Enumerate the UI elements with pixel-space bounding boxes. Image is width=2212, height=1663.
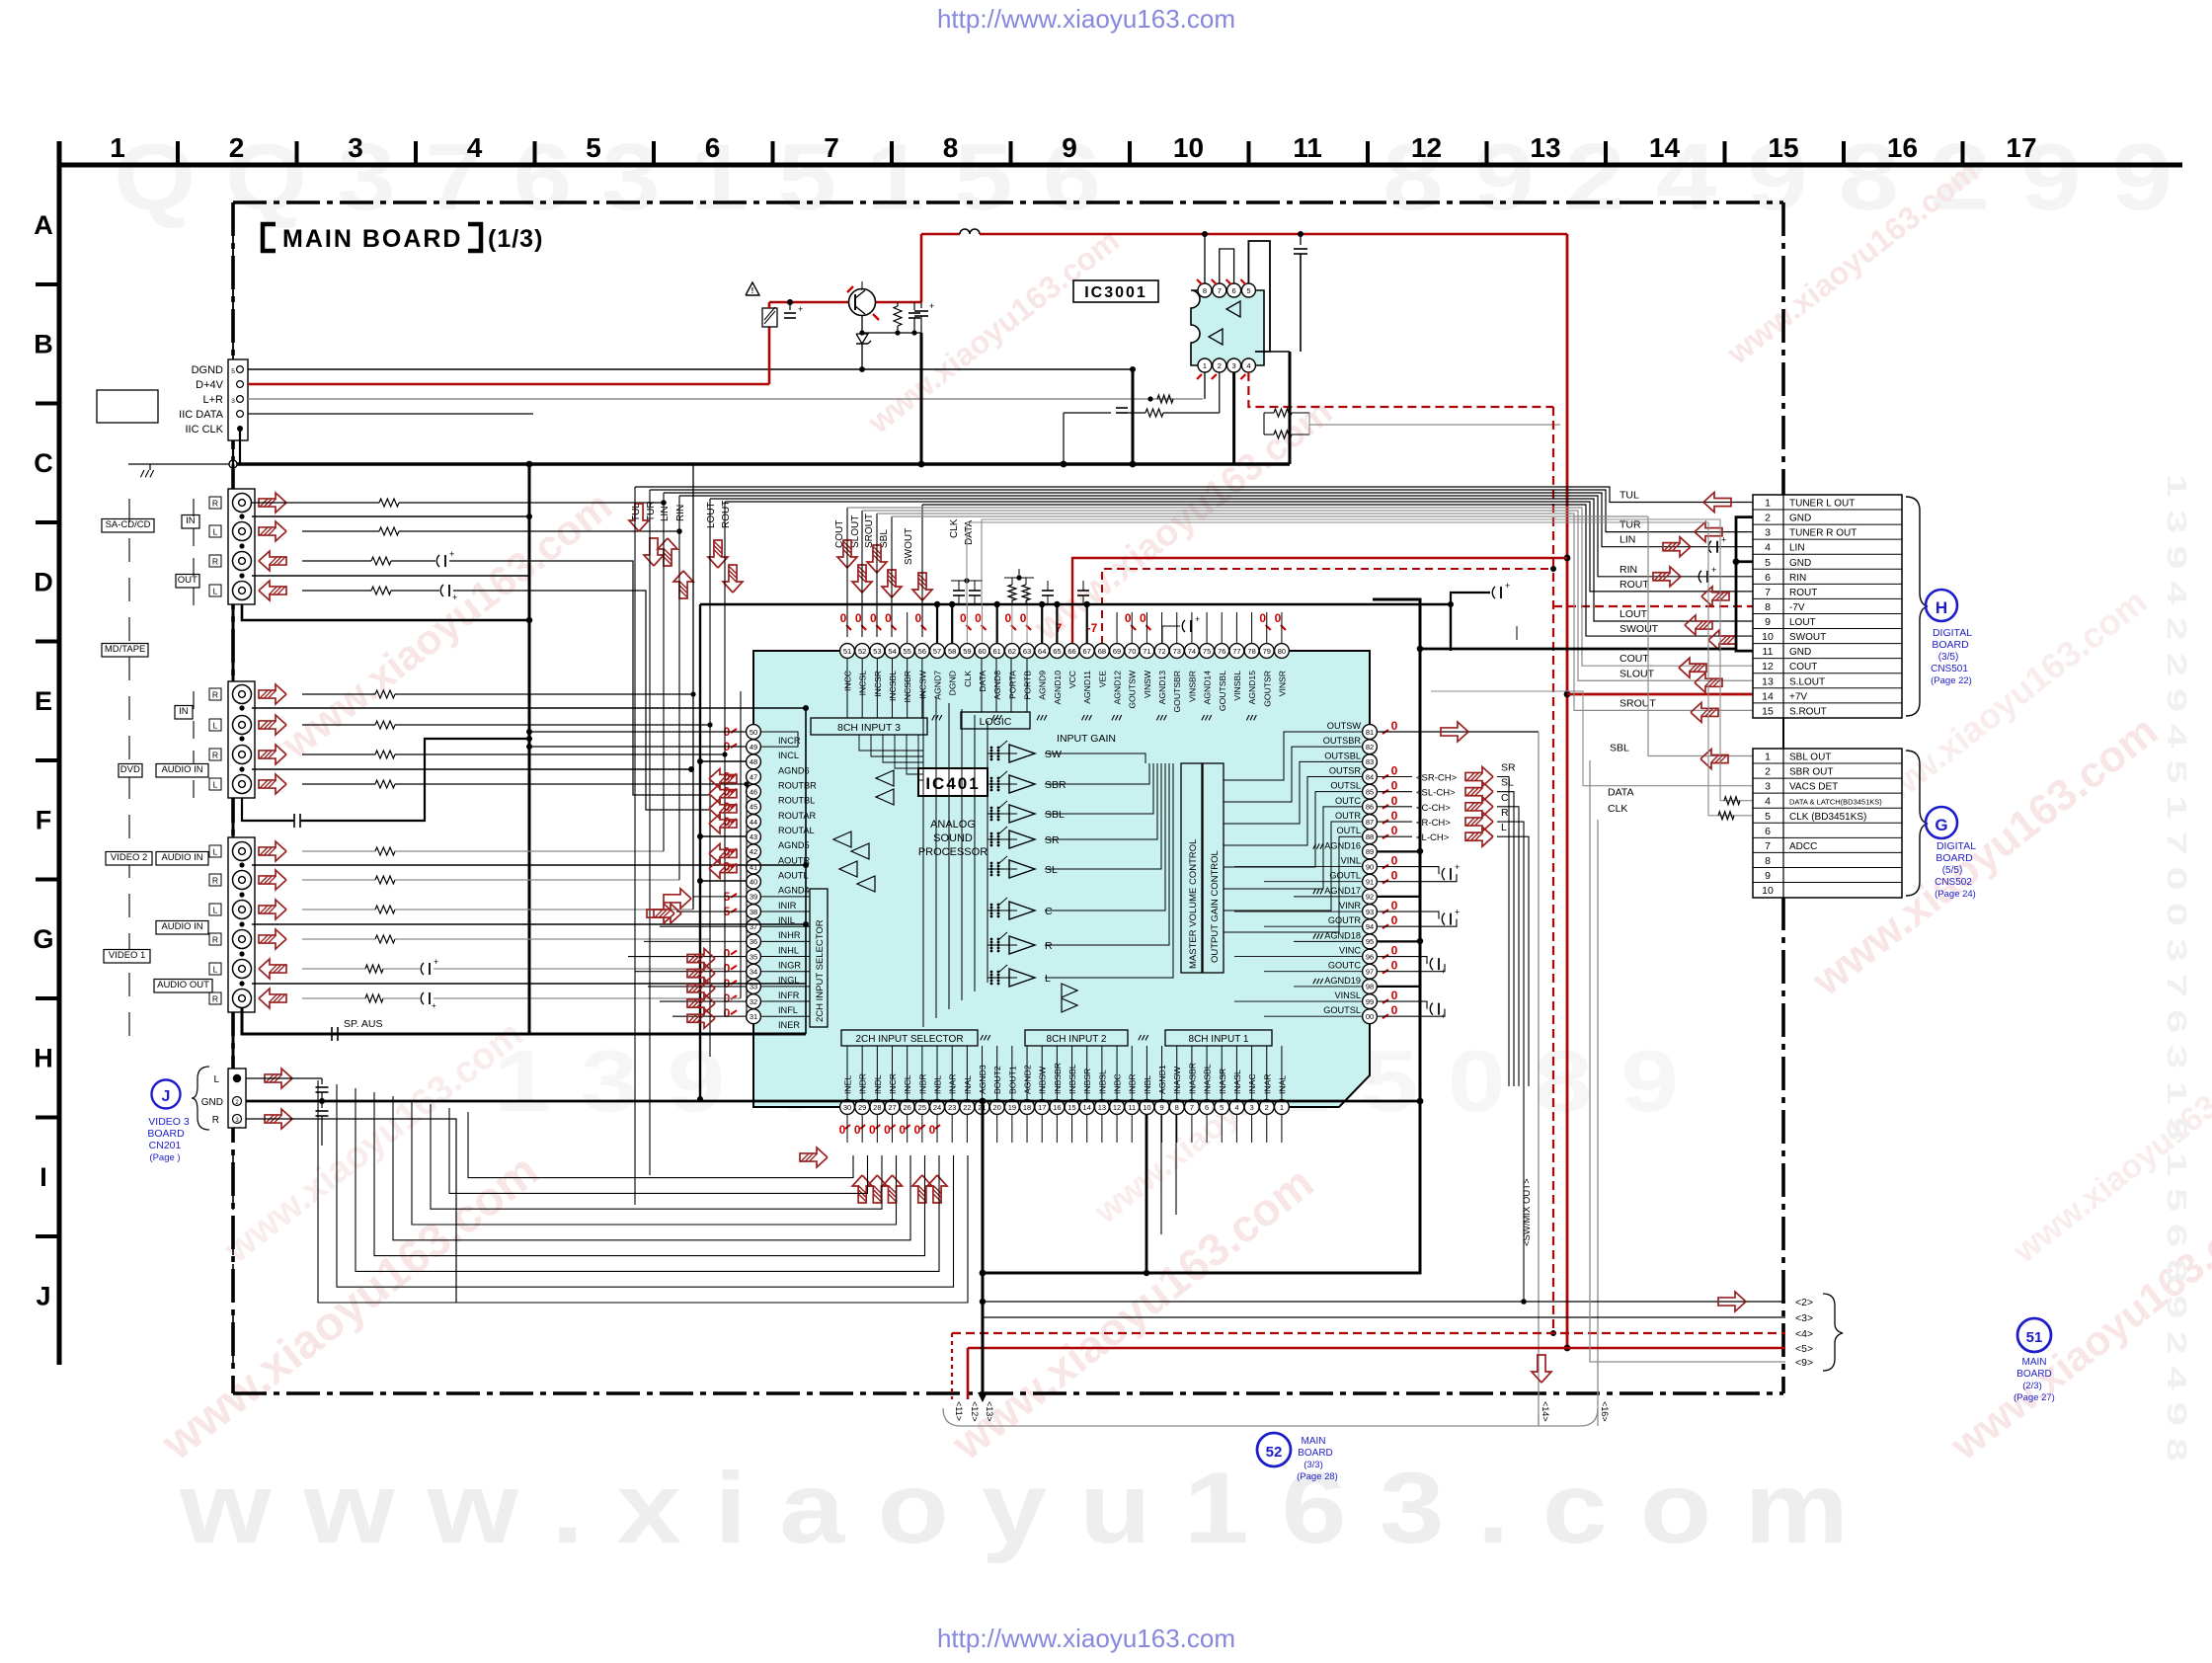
red dashed to -7V row8	[1553, 605, 1754, 607]
svg-text:78: 78	[1247, 647, 1255, 656]
svg-text:AGND4: AGND4	[778, 886, 810, 896]
svg-text:4: 4	[1246, 361, 1250, 370]
red riser to top rail	[920, 234, 923, 302]
svg-text:<13>: <13>	[985, 1401, 994, 1422]
svg-text:7: 7	[1765, 587, 1771, 598]
svg-text:I: I	[39, 1162, 47, 1192]
svg-text:VINSBR: VINSBR	[1187, 671, 1197, 702]
H connector table	[1753, 495, 1902, 718]
svg-text:L: L	[213, 1074, 219, 1085]
svg-text:MAIN BOARD: MAIN BOARD	[282, 225, 463, 253]
svg-text:74: 74	[1188, 647, 1196, 656]
svg-text:27: 27	[888, 1103, 896, 1112]
G connector table	[1753, 749, 1902, 898]
svg-text:87: 87	[1366, 818, 1374, 827]
svg-text:AGND9: AGND9	[1038, 671, 1048, 700]
svg-text:11: 11	[1763, 646, 1774, 658]
rail stubs to pins	[936, 604, 938, 643]
svg-text:SWOUT: SWOUT	[1789, 632, 1826, 643]
svg-text:AOUTL: AOUTL	[778, 871, 809, 881]
svg-text:5: 5	[1220, 1103, 1224, 1112]
svg-text:ANALOG: ANALOG	[930, 819, 976, 831]
svg-text:+: +	[929, 301, 934, 311]
svg-text:82: 82	[1366, 743, 1374, 752]
svg-text:COUT: COUT	[1619, 653, 1649, 665]
svg-text:OUTPUT GAIN CONTROL: OUTPUT GAIN CONTROL	[1210, 850, 1221, 963]
svg-text:SP. AUS: SP. AUS	[344, 1018, 383, 1030]
svg-text:AGND6: AGND6	[778, 765, 810, 775]
svg-text:INHL: INHL	[778, 945, 799, 955]
svg-text:A: A	[34, 210, 53, 240]
svg-text:SWOUT: SWOUT	[904, 528, 914, 565]
svg-text:80: 80	[1278, 647, 1286, 656]
separator dashes col1	[128, 499, 130, 522]
svg-text:0: 0	[899, 1123, 906, 1137]
svg-text:R: R	[212, 935, 218, 945]
svg-text:ROUT: ROUT	[1789, 588, 1817, 598]
G brace	[1906, 751, 1928, 896]
svg-text:H: H	[1935, 598, 1947, 617]
mid bundle arrows	[629, 504, 649, 531]
svg-text:<9>: <9>	[1795, 1357, 1813, 1369]
svg-text:C: C	[34, 448, 53, 478]
svg-text:L: L	[213, 721, 218, 731]
svg-text:57: 57	[933, 647, 941, 656]
svg-text:VINSL: VINSL	[1334, 990, 1361, 1000]
svg-text:CN201: CN201	[149, 1140, 182, 1151]
svg-text:RIN: RIN	[1619, 564, 1637, 576]
border dash-dot frame	[233, 200, 1783, 204]
svg-text:89: 89	[1366, 847, 1374, 856]
svg-text:GOUTR: GOUTR	[1328, 915, 1362, 925]
svg-text:AGND19: AGND19	[1324, 976, 1361, 986]
svg-text:0: 0	[869, 1123, 876, 1137]
svg-text:TUNER L OUT: TUNER L OUT	[1789, 499, 1855, 510]
svg-text:8: 8	[1175, 1103, 1179, 1112]
svg-text:VIDEO 1: VIDEO 1	[109, 950, 146, 961]
svg-text:17: 17	[1038, 1103, 1046, 1112]
svg-text:SROUT: SROUT	[864, 514, 875, 548]
svg-text:93: 93	[1366, 908, 1374, 916]
svg-text:CLK: CLK	[949, 518, 960, 538]
svg-text:61: 61	[993, 647, 1001, 656]
svg-text:60: 60	[978, 647, 986, 656]
svg-text:90: 90	[1366, 862, 1374, 871]
heavy vertical x=1305 to bus	[1289, 352, 1292, 464]
svg-text:63: 63	[1023, 647, 1031, 656]
svg-text:(Page 28): (Page 28)	[1297, 1471, 1338, 1482]
svg-text:0: 0	[1005, 611, 1012, 625]
svg-text:0: 0	[1391, 944, 1398, 958]
svg-text:+: +	[1441, 967, 1446, 976]
ground marks under AGND top pins	[932, 715, 935, 720]
inner box 2CH INPUT SELECTOR vertical	[810, 889, 828, 1027]
IC3001 bottom wiring	[1204, 372, 1206, 399]
svg-text:67: 67	[1083, 647, 1091, 656]
svg-text:84: 84	[1366, 772, 1374, 781]
title MAIN BOARD (1/3)	[263, 224, 276, 251]
svg-text:3: 3	[348, 132, 363, 163]
svg-text:13: 13	[1098, 1103, 1106, 1112]
svg-text:(Page 22): (Page 22)	[1931, 675, 1972, 686]
svg-text:L: L	[213, 780, 218, 790]
red dashed vertical x=1573	[1552, 407, 1554, 1333]
svg-text:8: 8	[1765, 855, 1771, 867]
ground marks AGND right pins	[1313, 843, 1316, 848]
svg-text:86: 86	[1366, 803, 1374, 812]
connector CN101 (DGND/D+4V/L+R/IIC DATA/IIC CLK)	[228, 359, 248, 440]
ground symbol C row	[140, 470, 144, 477]
svg-text:SLOUT: SLOUT	[1619, 668, 1655, 679]
IC401 bottom pins 30-1	[840, 1100, 855, 1115]
51 circle	[2017, 1318, 2051, 1352]
svg-text:OUTL: OUTL	[1336, 826, 1361, 835]
svg-text:GOUTSR: GOUTSR	[1262, 671, 1272, 707]
svg-text:<4>: <4>	[1795, 1328, 1813, 1340]
svg-text:0: 0	[960, 611, 967, 625]
svg-text:16: 16	[1053, 1103, 1061, 1112]
svg-text:8CH INPUT 1: 8CH INPUT 1	[1189, 1034, 1249, 1045]
bottom pin stubs	[846, 1115, 848, 1143]
svg-text:DGND: DGND	[192, 364, 223, 376]
svg-text:R: R	[1045, 940, 1053, 952]
svg-text:5: 5	[586, 132, 601, 163]
svg-text:92: 92	[1366, 893, 1374, 902]
svg-text:0: 0	[854, 1123, 861, 1137]
mid bundle verticals	[634, 487, 636, 1205]
svg-text:SL: SL	[1045, 864, 1058, 876]
svg-text:0: 0	[1391, 959, 1398, 973]
svg-text:+: +	[1195, 614, 1200, 624]
svg-text:99: 99	[1366, 997, 1374, 1006]
svg-text:L: L	[1501, 822, 1507, 833]
svg-text:0: 0	[1275, 611, 1282, 625]
svg-text:0: 0	[1140, 611, 1146, 625]
svg-text:VCC: VCC	[1067, 671, 1077, 688]
svg-text:INPUT GAIN: INPUT GAIN	[1057, 733, 1116, 745]
svg-text:MAIN: MAIN	[1302, 1436, 1326, 1447]
svg-text:+: +	[1721, 535, 1726, 545]
svg-text:IN: IN	[179, 706, 189, 717]
svg-text:GOUTSBL: GOUTSBL	[1218, 671, 1227, 711]
svg-text:ROUTBL: ROUTBL	[778, 796, 815, 806]
svg-text:7: 7	[824, 132, 839, 163]
inner box OUTPUT GAIN CONTROL	[1203, 763, 1224, 973]
svg-text:OUTSW: OUTSW	[1327, 721, 1362, 731]
svg-text:J: J	[36, 1282, 50, 1311]
svg-text:D: D	[34, 568, 53, 597]
svg-text:95: 95	[1366, 937, 1374, 946]
thermistor box	[762, 308, 777, 327]
svg-text:R: R	[212, 557, 218, 567]
svg-text:0: 0	[840, 611, 847, 625]
heavy line pin3 to bus	[1232, 372, 1235, 464]
svg-text:8: 8	[1203, 286, 1207, 295]
svg-text:VIDEO 2: VIDEO 2	[111, 852, 148, 863]
svg-text:44: 44	[750, 818, 757, 827]
svg-text:+: +	[798, 304, 803, 314]
J circle	[152, 1080, 181, 1109]
svg-text:MAIN: MAIN	[2022, 1357, 2047, 1368]
svg-text:55: 55	[904, 647, 911, 656]
svg-text:0: 0	[1391, 1003, 1398, 1017]
empty box B-C	[97, 390, 158, 423]
inner box LOGIC	[961, 712, 1030, 729]
svg-text:2CH INPUT SELECTOR: 2CH INPUT SELECTOR	[815, 919, 826, 1022]
svg-text:43: 43	[750, 832, 757, 841]
wire L+R (gray)	[248, 398, 1203, 400]
svg-text:(3/5): (3/5)	[1938, 652, 1959, 663]
svg-text:INCR: INCR	[778, 736, 801, 746]
svg-text:6: 6	[705, 132, 721, 163]
svg-text:GOUTSBR: GOUTSBR	[1172, 671, 1182, 713]
svg-text:C: C	[1045, 906, 1053, 917]
svg-text:ROUTAL: ROUTAL	[778, 826, 815, 835]
svg-text:4: 4	[1234, 1103, 1238, 1112]
svg-text:42: 42	[750, 847, 757, 856]
svg-text:13: 13	[1762, 675, 1774, 687]
svg-text:00: 00	[1366, 1012, 1374, 1021]
svg-text:IC401: IC401	[925, 774, 980, 793]
svg-text:F: F	[36, 806, 52, 835]
svg-text:L: L	[1045, 973, 1051, 985]
wire IIC CLK	[239, 429, 241, 464]
svg-text:3: 3	[1765, 527, 1771, 539]
SP.AUS wire	[242, 1008, 806, 1034]
svg-text:23: 23	[948, 1103, 956, 1112]
52 circle	[1257, 1433, 1291, 1466]
svg-text:AGND15: AGND15	[1247, 671, 1257, 705]
svg-text:9: 9	[1765, 870, 1771, 882]
svg-text:8CH INPUT 2: 8CH INPUT 2	[1047, 1034, 1107, 1045]
svg-text:(2/3): (2/3)	[2022, 1381, 2042, 1391]
svg-text:34: 34	[750, 968, 757, 977]
svg-text:25: 25	[918, 1103, 926, 1112]
IC401 inner wiring mesh	[846, 659, 848, 718]
svg-text:L+R: L+R	[203, 394, 224, 406]
svg-text:3: 3	[1765, 781, 1771, 793]
svg-text:-7V: -7V	[1789, 602, 1805, 613]
wires to connector 51	[983, 1301, 1785, 1303]
svg-text:<SW/MIX OUT>: <SW/MIX OUT>	[1522, 1178, 1533, 1246]
svg-text:77: 77	[1232, 647, 1240, 656]
svg-text:22: 22	[963, 1103, 971, 1112]
svg-text:2: 2	[1265, 1103, 1269, 1112]
top pin stubs	[907, 612, 908, 643]
svg-text:0: 0	[1125, 611, 1132, 625]
svg-text:AGND7: AGND7	[933, 671, 943, 700]
svg-text:97: 97	[1366, 968, 1374, 977]
inner box 2CH INPUT SELECTOR bottom	[841, 1030, 978, 1046]
svg-text:0: 0	[855, 611, 862, 625]
svg-text:ROUT: ROUT	[1619, 579, 1649, 591]
svg-text:<12>: <12>	[970, 1401, 980, 1422]
IC3001 pins top 8 7 6 5	[1198, 283, 1212, 297]
svg-text:+: +	[1455, 862, 1460, 872]
svg-text:+: +	[434, 957, 438, 967]
cap C3005	[1300, 234, 1302, 245]
svg-text:CNS501: CNS501	[1931, 664, 1968, 674]
svg-text:SBL: SBL	[1045, 809, 1065, 821]
svg-text:7: 7	[1190, 1103, 1194, 1112]
svg-text:DVD: DVD	[120, 764, 140, 775]
svg-text:AGND17: AGND17	[1324, 886, 1361, 896]
svg-text:98: 98	[1366, 983, 1374, 991]
svg-text:DGND: DGND	[948, 671, 958, 695]
J arrows	[265, 1069, 292, 1088]
transistor Q3001	[849, 289, 876, 316]
svg-text:TUL: TUL	[1619, 490, 1639, 502]
svg-text:96: 96	[1366, 952, 1374, 961]
svg-text:GND: GND	[1789, 558, 1811, 569]
arrows group2	[259, 684, 286, 704]
op-amp IC401 analog sound processor (cyan body)	[753, 651, 1370, 1107]
svg-text:R: R	[212, 690, 218, 700]
svg-text:IN: IN	[186, 515, 196, 526]
svg-text:BOARD: BOARD	[1932, 639, 1969, 651]
svg-text:BOARD: BOARD	[1935, 852, 1973, 864]
svg-text:68: 68	[1098, 647, 1106, 656]
inner box 8CH INPUT 2	[1025, 1030, 1128, 1046]
inner box MASTER VOLUME CONTROL	[1181, 763, 1202, 973]
svg-text:13: 13	[1530, 132, 1560, 163]
heavy ground bus y=470	[237, 462, 1290, 465]
red wire y=306 regulator line	[768, 302, 771, 308]
svg-text:73: 73	[1173, 647, 1181, 656]
svg-text:LIN: LIN	[1789, 543, 1805, 554]
svg-text:0: 0	[1391, 764, 1398, 778]
svg-text:7: 7	[1218, 286, 1222, 295]
svg-text:70: 70	[1128, 647, 1136, 656]
svg-text:11: 11	[1128, 1103, 1136, 1112]
svg-text:6: 6	[1232, 286, 1236, 295]
G table wires	[892, 515, 1648, 517]
svg-text:PROCESSOR: PROCESSOR	[918, 846, 987, 858]
svg-text:AGND13: AGND13	[1157, 671, 1167, 705]
svg-text:51: 51	[843, 647, 851, 656]
svg-text:5: 5	[1765, 811, 1771, 823]
svg-text:TUR: TUR	[646, 501, 657, 521]
svg-text:OUTR: OUTR	[1335, 811, 1361, 821]
svg-text:OUT: OUT	[178, 575, 197, 586]
small buffer amps near left pins	[1062, 984, 1077, 997]
svg-text:32: 32	[750, 997, 757, 1006]
svg-text:INFR: INFR	[778, 990, 800, 1000]
svg-text:SBR OUT: SBR OUT	[1789, 767, 1833, 778]
svg-text:56: 56	[918, 647, 926, 656]
svg-text:<SR-CH>: <SR-CH>	[1416, 773, 1458, 784]
svg-text:IC3001: IC3001	[1084, 284, 1147, 301]
svg-text:65: 65	[1053, 647, 1061, 656]
svg-text:INER: INER	[778, 1020, 800, 1030]
heavy vertical to <13>	[982, 1101, 985, 1393]
svg-text:INFL: INFL	[778, 1005, 798, 1015]
svg-text:14: 14	[1649, 132, 1681, 163]
svg-text:4: 4	[467, 132, 483, 163]
AGND stubs to rail	[1378, 850, 1420, 852]
svg-text:1: 1	[1203, 361, 1207, 370]
svg-text:SBL OUT: SBL OUT	[1789, 752, 1831, 763]
heavy analog rail y=612	[700, 603, 1451, 606]
svg-text:0: 0	[885, 611, 892, 625]
svg-text:INGR: INGR	[778, 961, 801, 971]
svg-text:R: R	[212, 994, 218, 1004]
svg-text:VINSR: VINSR	[1277, 671, 1287, 696]
svg-text:38: 38	[750, 908, 757, 916]
svg-text:29: 29	[858, 1103, 866, 1112]
svg-text:R: R	[212, 1115, 219, 1126]
svg-text:0: 0	[1391, 869, 1398, 883]
svg-text:15: 15	[1762, 705, 1774, 717]
inner box 8CH INPUT 1	[1165, 1030, 1272, 1046]
svg-text:(1/3): (1/3)	[488, 225, 543, 253]
svg-text:20: 20	[993, 1103, 1001, 1112]
svg-text:(Page ): (Page )	[149, 1152, 180, 1163]
svg-text:9: 9	[1159, 1103, 1163, 1112]
svg-text:DATA & LATCH(BD3451KS): DATA & LATCH(BD3451KS)	[1789, 798, 1882, 807]
red +7V row14	[1567, 693, 1754, 696]
IC401 right pins 81-100	[1363, 725, 1378, 740]
svg-text:SOUND: SOUND	[933, 832, 973, 844]
H table wires TUL..SROUT	[635, 487, 1754, 503]
svg-text:1: 1	[1765, 498, 1771, 510]
svg-text:58: 58	[948, 647, 956, 656]
svg-text:VINR: VINR	[1339, 901, 1361, 911]
svg-text:GOUTL: GOUTL	[1329, 871, 1361, 881]
svg-text:26: 26	[904, 1103, 911, 1112]
svg-text:6: 6	[1765, 826, 1771, 837]
caps near VINSW pins	[1161, 626, 1163, 644]
svg-text:69: 69	[1113, 647, 1121, 656]
svg-text:48: 48	[750, 757, 757, 766]
svg-text:AGND8: AGND8	[992, 671, 1002, 700]
arrows group3	[259, 841, 286, 861]
op-amp IC3001 body	[1191, 290, 1264, 365]
resistor R3001 vertical	[897, 302, 899, 306]
svg-text:14: 14	[1083, 1103, 1091, 1112]
svg-text:40: 40	[750, 878, 757, 887]
svg-text:0: 0	[1391, 824, 1398, 837]
svg-text:71: 71	[1143, 647, 1150, 656]
J vertical rail continues	[232, 1033, 235, 1069]
svg-text:4: 4	[1765, 542, 1771, 554]
svg-text:GOUTC: GOUTC	[1328, 961, 1362, 971]
svg-text:GOUTSW: GOUTSW	[1128, 670, 1138, 709]
svg-text:VIDEO 3: VIDEO 3	[148, 1116, 190, 1128]
svg-text:10: 10	[1762, 885, 1774, 897]
svg-text:<2>: <2>	[1795, 1297, 1813, 1308]
svg-text:SL: SL	[1501, 777, 1514, 789]
arrows group1	[259, 493, 286, 513]
svg-text:OUTSR: OUTSR	[1329, 766, 1362, 776]
AGND3 heavy vertical	[1145, 1115, 1148, 1273]
IC401 top pins 51-80	[840, 644, 855, 659]
IC3001 pins bottom 1 2 3 4	[1198, 358, 1212, 372]
AGND stubs left pins to rail	[700, 760, 746, 762]
svg-text:0: 0	[975, 611, 982, 625]
red dashed VEE from pin68	[1102, 569, 1553, 644]
wires jack group1 to processor	[252, 502, 302, 504]
svg-text:66: 66	[1067, 647, 1075, 656]
svg-text:10: 10	[1762, 631, 1774, 643]
svg-text:72: 72	[1157, 647, 1165, 656]
right side caps	[1378, 867, 1439, 875]
GND loop at H table	[1736, 517, 1754, 652]
svg-text:OUTSL: OUTSL	[1330, 781, 1361, 791]
svg-text:52: 52	[1266, 1444, 1283, 1461]
IC3001 top wiring	[1204, 234, 1206, 283]
svg-text:24: 24	[933, 1103, 941, 1112]
